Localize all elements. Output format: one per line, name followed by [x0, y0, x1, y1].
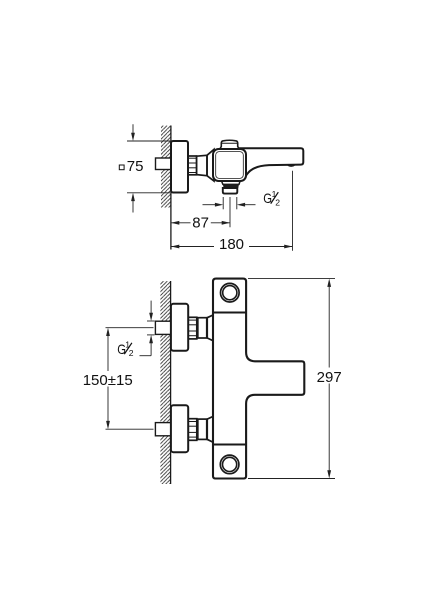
svg-text:2: 2 — [275, 198, 280, 208]
lower supply pipe stub — [155, 423, 171, 436]
outlet centerline (top view) — [229, 197, 231, 227]
wall hatch (top view) — [161, 126, 171, 208]
upper escutcheon plate — [171, 304, 188, 351]
flare adapter to body (top view) — [207, 149, 214, 181]
dimension 180 line and arrows — [171, 246, 214, 248]
cone section (top view) — [197, 155, 208, 175]
dimension square-75 extension lines — [127, 140, 170, 142]
G1/2 upper inlet arrows (bottom view) — [150, 301, 152, 314]
knurled nut (top view) — [188, 156, 197, 175]
label square 75 — [119, 165, 124, 170]
dimension 297 line and arrows — [328, 287, 330, 368]
svg-text:75: 75 — [127, 158, 144, 175]
supply pipe stub (top view) — [156, 158, 172, 170]
lower inlet knurled nut — [188, 419, 197, 441]
svg-text:87: 87 — [192, 214, 209, 231]
dimension 150+-15 extension lines — [106, 327, 154, 329]
G1/2 arrows (top view) — [203, 204, 217, 206]
upper supply pipe stub — [155, 321, 171, 334]
dimension 150+-15 line and arrows — [107, 336, 109, 371]
upper handle ring — [221, 283, 240, 302]
mixer body (top view) — [213, 149, 246, 181]
upper inlet cone — [198, 318, 207, 338]
escutcheon plate (top view) — [171, 141, 188, 193]
upper inlet knurled nut — [188, 317, 197, 339]
mixer body profile (bottom view) — [213, 279, 304, 479]
aerator bump under spout (top view) — [287, 164, 296, 167]
handle lever (top view) — [240, 148, 303, 178]
outlet nipple G1/2 (top view) — [223, 188, 238, 194]
lower inlet flare — [207, 416, 214, 443]
svg-text:2: 2 — [129, 348, 134, 358]
lower handle ring — [220, 455, 239, 474]
wall hatch (bottom view) — [160, 281, 170, 484]
svg-text:297: 297 — [317, 369, 342, 386]
outlet edge extension lines (top view) — [222, 197, 224, 209]
dimension 87 line and arrows — [171, 222, 191, 224]
label G1/2 (top view) — [263, 189, 280, 208]
head divider line — [213, 312, 246, 314]
cartridge cap on body (top view) — [220, 140, 240, 149]
foot divider line — [213, 444, 246, 446]
wall face line (top view) — [170, 126, 172, 250]
lower escutcheon plate — [171, 405, 188, 452]
dimension square-75 arrows — [132, 124, 134, 134]
wall face line (bottom view) — [170, 281, 172, 484]
svg-text:180: 180 — [219, 236, 244, 253]
outlet step (top view) — [221, 181, 240, 185]
dimension 297 extension lines — [248, 278, 335, 280]
upper inlet flare — [207, 315, 214, 342]
lower inlet cone — [198, 419, 207, 439]
svg-text:150±15: 150±15 — [83, 372, 133, 389]
outlet ring (dark band, top view) — [223, 184, 239, 188]
spout outlet extension line (top view) — [292, 171, 294, 251]
label G1/2 (bottom view) — [117, 340, 134, 359]
